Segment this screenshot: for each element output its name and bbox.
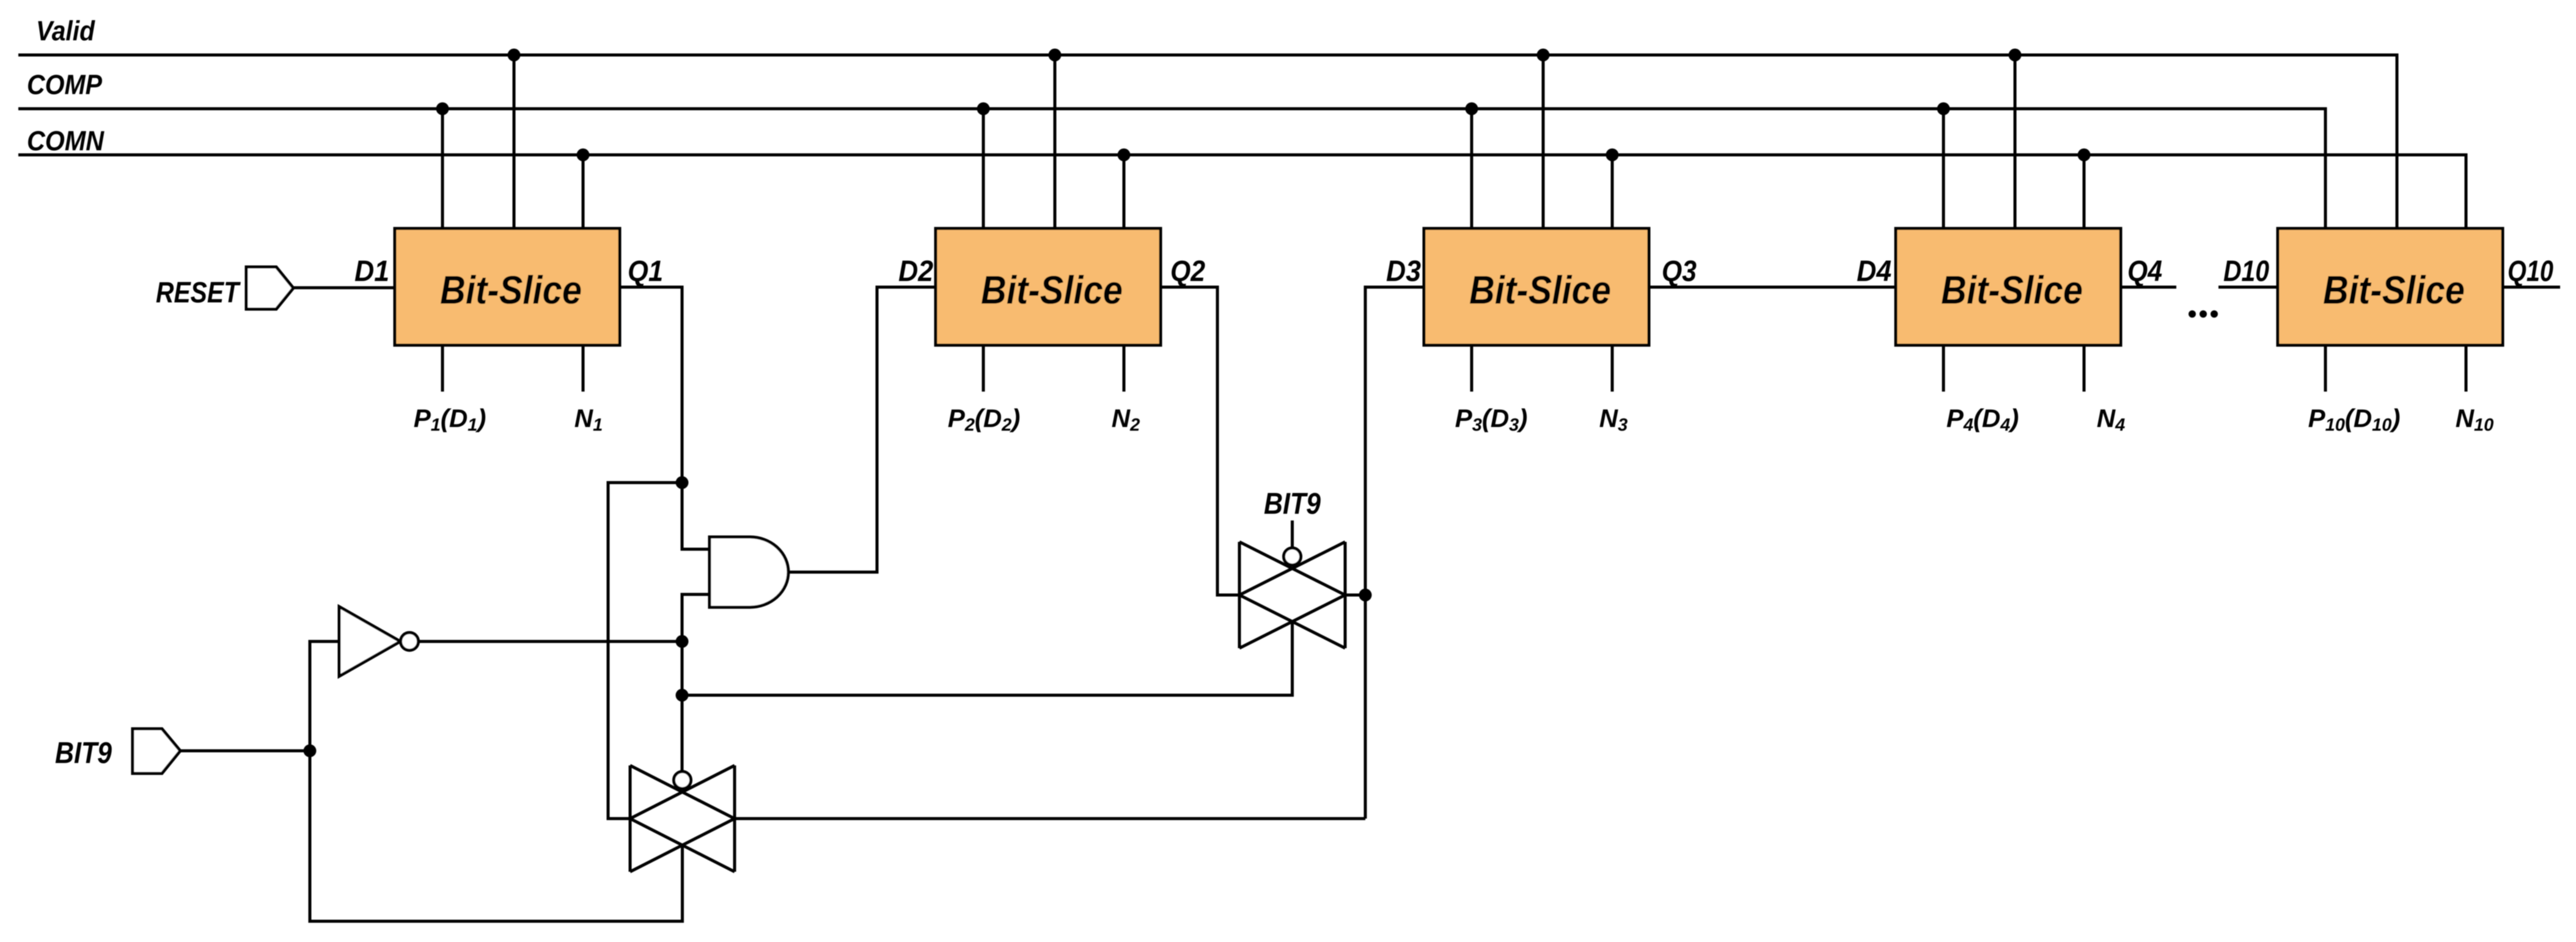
wire P10 pin stub	[2324, 345, 2327, 392]
transmission-gate TG1 bubble	[674, 772, 691, 789]
and-gate G1	[710, 537, 788, 607]
wire Valid pin of U2	[1054, 55, 1057, 228]
net COMP bus wire	[18, 109, 2325, 228]
wire N4 pin stub	[2083, 345, 2086, 392]
wire BIT9 junction down to lower transmission gate bottom control	[310, 751, 683, 921]
svg-text:Q10: Q10	[2508, 255, 2553, 288]
wire P1 pin stub	[441, 345, 444, 392]
wire Valid pin of U4	[2014, 55, 2017, 228]
wire TG2 right terminal to D3 line	[1345, 594, 1365, 597]
node junction COMN/U3	[1606, 148, 1619, 161]
wire AND output to D2	[788, 287, 936, 572]
wire Q10 stub	[2503, 286, 2560, 289]
transmission-gate TG2 right bar	[1344, 542, 1347, 648]
node junction Valid/U4	[2009, 49, 2022, 62]
transmission-gate TG1 left bar	[629, 765, 632, 872]
node junction COMP/U4	[1937, 103, 1950, 115]
wire Valid pin of U3	[1542, 55, 1545, 228]
wire Valid pin of U1	[513, 55, 516, 228]
wire RESET to D1	[293, 287, 395, 290]
wire N3 pin stub	[1611, 345, 1614, 392]
node junction COMP/U2	[977, 103, 990, 115]
node Q1 branch	[676, 476, 689, 489]
node inverter output junction	[676, 635, 689, 648]
wire BIT9 to junction	[180, 750, 310, 753]
wire BIT9 label to TG2 bubble	[1291, 520, 1294, 548]
wire COMP pin of U2	[982, 109, 985, 228]
wire branch to upper TG bottom control	[682, 622, 1293, 696]
svg-text:D1: D1	[354, 255, 389, 288]
transmission-gate TG1 diagonals	[630, 765, 735, 872]
transmission-gate TG2 bubble	[1284, 548, 1301, 565]
port RESET input symbol	[246, 267, 293, 309]
svg-text:Bit-Slice: Bit-Slice	[1941, 268, 2083, 312]
bit-slice U3 box	[1424, 228, 1649, 345]
wire COMN pin of U4	[2083, 155, 2086, 229]
wire N2 pin stub	[1123, 345, 1126, 392]
bit-slice U2 box	[936, 228, 1161, 345]
wire D10 stub	[2218, 286, 2278, 289]
wire Q4 stub	[2121, 286, 2176, 289]
wire TG1 right terminal (to D3 vertical)	[735, 817, 1365, 820]
svg-text:Bit-Slice: Bit-Slice	[1469, 268, 1611, 312]
svg-text:RESET: RESET	[156, 277, 241, 309]
svg-text:Valid: Valid	[36, 15, 95, 46]
wire Q1 from U1 to AND gate top input	[620, 287, 710, 549]
wire junction up to AND bottom input	[682, 594, 710, 641]
node junction COMP/U1	[436, 103, 449, 115]
svg-text:Q4: Q4	[2127, 255, 2162, 288]
wire COMN pin of U2	[1123, 155, 1126, 229]
bit-slice U10 box	[2278, 228, 2503, 345]
bit-slice U1 box	[395, 228, 620, 345]
ellipsis dots	[2189, 310, 2218, 318]
svg-text:D2: D2	[898, 255, 933, 288]
node junction COMN/U1	[577, 148, 590, 161]
node junction COMP/U3	[1466, 103, 1478, 115]
node control branch junction	[676, 689, 689, 702]
wire COMP pin of U1	[441, 109, 444, 228]
port BIT9 input symbol	[133, 729, 180, 773]
inverter G2 triangle	[339, 607, 400, 676]
wire Q1 branch to lower transmission gate left terminal	[608, 483, 682, 819]
inverter G2 bubble	[401, 633, 419, 651]
net COMN bus wire	[18, 155, 2466, 229]
svg-text:BIT9: BIT9	[1264, 487, 1321, 520]
svg-text:D10: D10	[2223, 255, 2269, 288]
wire P3 pin stub	[1470, 345, 1473, 392]
bit-slice U4 box	[1896, 228, 2121, 345]
svg-text:Bit-Slice: Bit-Slice	[440, 268, 582, 312]
transmission-gate TG2 left bar	[1238, 542, 1241, 648]
node TG2/D3 junction	[1359, 589, 1372, 602]
svg-text:Q2: Q2	[1170, 255, 1205, 288]
node junction COMN/U4	[2078, 148, 2091, 161]
svg-text:Bit-Slice: Bit-Slice	[981, 268, 1123, 312]
transmission-gate TG1 right bar	[733, 765, 736, 872]
wire COMP pin of U4	[1942, 109, 1945, 228]
node junction Valid/U2	[1049, 49, 1062, 62]
svg-text:Q1: Q1	[628, 255, 663, 288]
wire BIT9 junction up to inverter input	[310, 641, 339, 751]
svg-text:BIT9: BIT9	[55, 737, 112, 770]
transmission-gate TG2 diagonals	[1239, 542, 1345, 648]
svg-text:COMN: COMN	[27, 125, 105, 156]
node junction COMN/U2	[1118, 148, 1131, 161]
wire N10 pin stub	[2465, 345, 2468, 392]
wire N1 pin stub	[582, 345, 585, 392]
wire inverter output to AND gate bottom input	[419, 640, 682, 643]
wire COMN pin of U3	[1611, 155, 1614, 229]
wire COMN pin of U1	[582, 155, 585, 229]
node junction Valid/U3	[1537, 49, 1550, 62]
svg-text:D4: D4	[1857, 255, 1892, 288]
net Valid bus wire	[18, 55, 2397, 228]
wire P4 pin stub	[1942, 345, 1945, 392]
svg-text:Q3: Q3	[1662, 255, 1697, 288]
wire junction down to lower TG bubble	[681, 641, 684, 772]
node junction Valid/U1	[508, 49, 521, 62]
svg-text:Bit-Slice: Bit-Slice	[2323, 268, 2465, 312]
wire COMP pin of U3	[1470, 109, 1473, 228]
node BIT9 junction	[304, 745, 317, 758]
wire P2 pin stub	[982, 345, 985, 392]
wire D3 vertical from U3 input	[1365, 287, 1424, 819]
wire Q3 to D4	[1649, 286, 1896, 289]
svg-text:COMP: COMP	[27, 69, 103, 100]
wire Q2 to TG2 left terminal	[1161, 287, 1239, 595]
svg-text:D3: D3	[1386, 255, 1421, 288]
